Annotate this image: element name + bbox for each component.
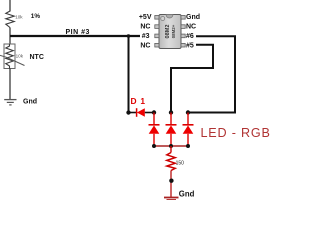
wire top feed to R1 — [9, 0, 11, 12]
wire NTC to ground — [9, 69, 11, 100]
svg-text:08M2+: 08M2+ — [171, 24, 176, 38]
LED 2 (green) — [166, 113, 177, 147]
svg-text:LED - RGB: LED - RGB — [201, 126, 271, 140]
wire R2 to ground — [170, 171, 172, 198]
junction rail right — [186, 144, 190, 148]
junction node LED blue — [186, 110, 190, 114]
thermistor diagonal mark — [0, 55, 25, 65]
wire D1 anode to node R — [145, 112, 153, 114]
svg-text:10k: 10k — [16, 54, 24, 59]
wire pin3 vertical to D1 — [128, 36, 130, 113]
wire junction to D1 cathode — [129, 112, 137, 114]
svg-text:NC: NC — [140, 23, 150, 30]
thermistor NTC zigzag — [6, 44, 13, 69]
svg-text:NC: NC — [186, 23, 196, 30]
junction node LED green — [169, 110, 173, 114]
junction node D1 left — [126, 110, 130, 114]
svg-text:PIN #3: PIN #3 — [66, 29, 90, 36]
junction node LED red — [152, 110, 156, 114]
svg-text:#3: #3 — [142, 33, 150, 40]
ground symbol bottom — [164, 198, 179, 200]
resistor R1 10k 1% — [6, 11, 14, 28]
LED 3 (blue) — [183, 113, 194, 147]
thermistor NTC body — [4, 44, 15, 69]
svg-text:NTC: NTC — [30, 54, 44, 61]
svg-text:D1: D1 — [131, 96, 149, 106]
junction rail mid — [169, 144, 173, 148]
junction rail left — [152, 144, 156, 148]
wire pin6 path — [188, 36, 235, 112]
svg-text:150: 150 — [176, 160, 185, 166]
svg-text:10k: 10k — [15, 15, 23, 20]
IC pin1 marker dot — [161, 17, 165, 21]
svg-text:Gnd: Gnd — [186, 14, 200, 21]
resistor R2 150 — [167, 146, 175, 171]
LED 1 (red) — [149, 113, 160, 147]
junction on ground wire — [169, 179, 173, 183]
wire R1 bottom to NTC — [9, 28, 11, 45]
svg-text:#6: #6 — [186, 33, 194, 40]
IC pins left (1-4) — [155, 16, 159, 48]
svg-text:Gnd: Gnd — [23, 98, 37, 105]
wire PIN #3 horizontal — [10, 35, 140, 37]
ground symbol left — [4, 100, 16, 105]
svg-text:NC: NC — [140, 42, 150, 49]
wire pin5 path — [171, 45, 213, 113]
IC notch — [166, 15, 173, 19]
diode D1 — [137, 108, 145, 117]
svg-text:+5V: +5V — [139, 14, 152, 21]
svg-text:1%: 1% — [31, 13, 41, 20]
junction PIN3/vertical — [127, 34, 131, 38]
wire common anode rail — [154, 145, 188, 147]
svg-text:Gnd: Gnd — [179, 189, 195, 198]
op IC U1 PICAXE 08M2 body — [159, 15, 181, 49]
IC pins right (5-8) — [181, 16, 185, 48]
svg-text:#5: #5 — [186, 42, 194, 49]
svg-text:08M2: 08M2 — [165, 25, 171, 39]
